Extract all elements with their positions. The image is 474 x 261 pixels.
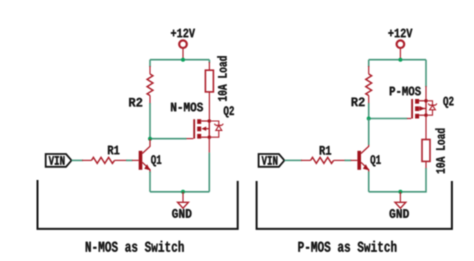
- label N-MOS: [171, 103, 203, 112]
- frame box right: [257, 181, 452, 229]
- wire VIN to R1 left: [72, 159, 84, 161]
- wire R2 top drop left: [149, 60, 151, 67]
- junction ground node left: [181, 190, 185, 194]
- wire gate left: [150, 138, 187, 140]
- wire bottom rail left: [150, 191, 209, 193]
- ground GND left: [172, 192, 191, 218]
- junction power node left: [181, 58, 185, 62]
- label Q2 right: [443, 97, 453, 108]
- wire R2 to gate junction right: [368, 103, 370, 119]
- resistor R2 left: [129, 66, 153, 107]
- wire collector up right: [368, 119, 370, 146]
- wire source down left: [208, 137, 210, 192]
- power flag +12V right: [388, 29, 412, 60]
- wire VIN to R1 right: [284, 159, 302, 161]
- caption P-MOS as Switch: [298, 241, 396, 252]
- wire emitter down right: [368, 172, 370, 192]
- wire R2 top drop right: [368, 60, 370, 67]
- resistor R2 right: [352, 66, 372, 106]
- label P-MOS: [390, 87, 421, 96]
- transistor Q1 left: [132, 139, 161, 173]
- ground GND right: [390, 192, 409, 218]
- label Q2 left: [224, 106, 234, 117]
- resistor R1 left: [82, 146, 127, 164]
- net label VIN left: [46, 154, 72, 167]
- wire load top drop left: [208, 60, 210, 63]
- net label VIN right: [259, 154, 285, 167]
- wire gate right: [369, 118, 408, 120]
- junction ground node right: [398, 190, 402, 194]
- wire R1 to Q1 base right: [345, 159, 352, 161]
- resistor 10A Load right: [422, 129, 445, 174]
- transistor Q2 N-MOS symbol: [186, 119, 211, 139]
- wire source top drop right: [425, 60, 427, 87]
- body diode of Q2 left: [209, 121, 223, 137]
- frame box left: [38, 180, 238, 229]
- caption N-MOS as Switch: [86, 241, 184, 252]
- power flag +12V left: [171, 29, 195, 60]
- junction gate node left: [148, 137, 152, 141]
- transistor Q2 P-MOS symbol: [407, 86, 428, 119]
- wire load to drain left: [208, 92, 210, 121]
- wire emitter down left: [149, 172, 151, 192]
- resistor R1 right: [301, 146, 346, 163]
- wire drain to load right: [425, 115, 427, 139]
- junction power node right: [398, 58, 402, 62]
- wire R1 to Q1 base left: [126, 159, 133, 161]
- wire top rail left: [150, 59, 209, 61]
- wire R2 to gate junction left: [149, 103, 151, 139]
- resistor 10A Load left: [205, 56, 226, 101]
- wire load bottom drop right: [369, 168, 426, 192]
- junction gate node right: [367, 117, 371, 121]
- wire top rail right: [369, 59, 426, 61]
- body diode of Q2 right: [426, 101, 437, 115]
- transistor Q1 right: [351, 144, 381, 173]
